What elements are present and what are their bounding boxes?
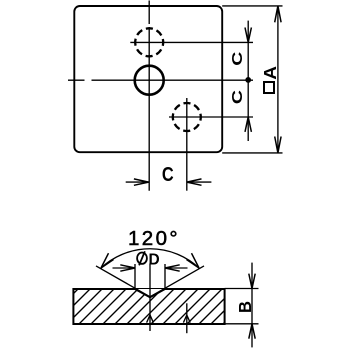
arrow down at y=42.4: [245, 28, 251, 43]
arrow up at y=323.8: [249, 324, 255, 339]
svg-text:B: B: [235, 301, 256, 313]
label square A: [260, 66, 280, 93]
dimension line C (bottom of top view): [126, 181, 212, 183]
svg-text:C: C: [228, 51, 245, 65]
svg-text:D: D: [149, 251, 160, 268]
extension line top edge: [222, 5, 282, 7]
wire: horizontal center line through lower hidden hole y=117: [169, 116, 253, 118]
arrow down at y=152.9: [275, 137, 281, 153]
svg-text:A: A: [260, 66, 280, 80]
arrow right at x=135: [120, 265, 135, 271]
countersink V groove: [135, 289, 165, 297]
section plate outline: [73, 289, 224, 324]
svg-text:120°: 120°: [128, 227, 180, 250]
square plate outline (top view): [74, 6, 222, 152]
dimension line C-C (right inner): [247, 21, 249, 141]
svg-text:C: C: [162, 162, 174, 185]
angle extension lines 120 deg: [96, 266, 204, 297]
arrow up at y=117: [245, 117, 251, 132]
extension lines for dia D: [135, 264, 165, 289]
wire: vertical center line through lower hidden hole x=186.8: [186, 98, 188, 191]
hidden hole lower right (dashed circle): [173, 103, 201, 131]
arrow at left arc end: [101, 253, 114, 268]
node dot at center line intersection: [245, 77, 251, 83]
svg-text:C: C: [228, 90, 245, 104]
arrow down at y=288.5: [249, 274, 255, 289]
center hole (solid circle): [135, 66, 164, 95]
hatching: [43, 289, 258, 324]
arrow at right arc end: [187, 253, 200, 268]
arrow left at x=165: [165, 265, 180, 271]
arrow left at x=187: [187, 179, 202, 185]
hidden hole top (dashed circle): [135, 28, 163, 56]
extension line bottom edge: [222, 152, 282, 154]
dimension line B: [251, 263, 253, 348]
angle dimension arc: [101, 249, 199, 268]
dimension line dia D with outside arrows: [113, 267, 188, 269]
extension lines for B: [225, 289, 259, 324]
wire: vertical center line through holes at x=149.2: [148, 1, 150, 191]
small arrow up at x=186.8 bottom: [183, 315, 190, 323]
arrow right at x=148.6: [134, 179, 149, 185]
wire: section center line x=150: [149, 264, 151, 332]
small arrow up at x=150 bottom: [147, 315, 154, 323]
wire: horizontal center line through center hole y=80.2: [68, 79, 253, 81]
arrow up at y=5.9: [275, 6, 281, 22]
wire: section center line x=186.8: [186, 303, 188, 333]
label phi D: [137, 251, 160, 268]
wire: horizontal center line through top hidden hole y=42.4: [130, 41, 253, 43]
dimension line A (right outer): [277, 6, 279, 153]
